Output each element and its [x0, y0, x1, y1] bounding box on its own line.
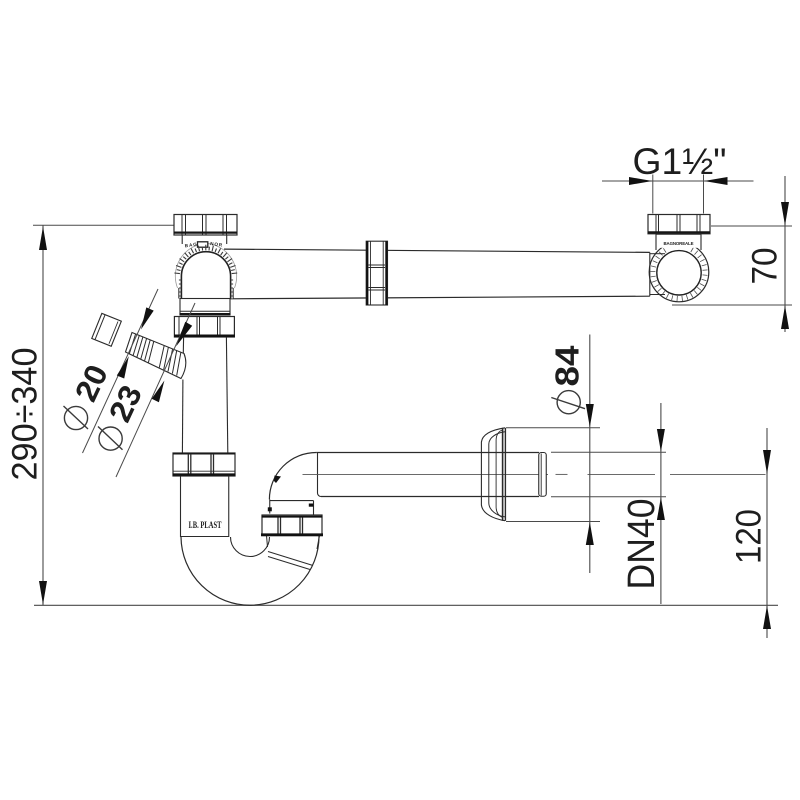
- node elbow socket mouth: [649, 252, 651, 296]
- wire dim ∅23 leader line: [116, 303, 195, 477]
- pipe tee dome tube arc: [181, 252, 230, 299]
- svg-text:BAGNOREALE: BAGNOREALE: [664, 241, 694, 246]
- wire trap body tube edges: [180, 476, 182, 537]
- wire vertical pipe right edge: [226, 337, 227, 453]
- elbow E1 knurl marks: [650, 248, 707, 302]
- node wall flange cone: [481, 428, 505, 521]
- pipe U-bend outer arc: [181, 536, 319, 606]
- node dim DN40 extension lines: [551, 451, 666, 453]
- wire dim 290÷340 dimension line: [42, 226, 44, 606]
- node wall flange face plate: [502, 428, 504, 521]
- svg-text:70: 70: [745, 248, 785, 285]
- wire dim ∅20 leader line: [83, 289, 159, 453]
- elbow E1 body ring: [649, 242, 709, 302]
- nut N6 mid-pipe joint: [366, 241, 387, 305]
- wire elbow joint vertical line: [318, 453, 322, 497]
- node elbow shoulder: [270, 500, 314, 502]
- svg-text:DN40: DN40: [621, 499, 663, 590]
- wire outlet pipe bottom edge: [321, 496, 539, 498]
- nut N5 right elbow top nut: [648, 215, 710, 234]
- pipe U-bend inner arc: [231, 537, 270, 557]
- wire dim 70 dimension line: [784, 176, 786, 332]
- elbow E1 inner ring: [657, 251, 701, 295]
- wire elbow left edge: [269, 499, 271, 513]
- pipe trap outlet elbow outer arc: [269, 453, 316, 500]
- node tee neck: [181, 235, 183, 245]
- node elbow base marks: [268, 507, 272, 511]
- nut N3 trap inlet nut: [173, 453, 236, 476]
- node label ∅20: [64, 406, 87, 429]
- wire outlet pipe top edge: [316, 452, 539, 454]
- node dim 290÷340 extension line top: [33, 224, 174, 226]
- wire dim DN40 dimension line: [660, 403, 662, 604]
- nut N4 trap outlet nut: [261, 515, 323, 536]
- svg-text:G1½": G1½": [633, 141, 727, 182]
- wire dim 120 dimension line: [766, 428, 768, 638]
- wire dim ∅84 dimension line: [589, 335, 591, 574]
- svg-text:120: 120: [729, 509, 769, 564]
- tee T1 dome knurl marks: [174, 245, 237, 296]
- wire top pipe lower edge: [229, 296, 650, 299]
- svg-text:84: 84: [548, 345, 585, 387]
- nut N2 tee lower nut: [174, 317, 235, 338]
- svg-text:290÷340: 290÷340: [5, 348, 45, 481]
- wire vertical pipe left edge upper: [182, 337, 184, 353]
- connector J1 barb cap: [92, 313, 122, 346]
- node dim G1½ extension lines: [652, 175, 654, 214]
- node tee boss: [198, 242, 208, 247]
- svg-text:I.B. PLAST: I.B. PLAST: [189, 520, 222, 530]
- tee T1 dome body: [175, 243, 236, 298]
- wire ground reference line: [34, 604, 778, 606]
- node dim ∅84 extension lines: [506, 427, 600, 429]
- connector J1 hose barb: [126, 333, 186, 379]
- nut N1 tee top nut: [174, 215, 237, 236]
- node dim 70 extension lines: [711, 225, 792, 227]
- node trap body step line: [181, 536, 229, 538]
- wire dim G1½ dimension line: [602, 180, 754, 182]
- node outlet pipe end bead: [539, 453, 547, 497]
- node label ∅84: [557, 391, 580, 414]
- node trap outlet socket seams: [268, 552, 313, 566]
- wire top pipe upper edge: [224, 249, 650, 252]
- node elbow socket spigot lines: [650, 253, 665, 255]
- connector J1 barb ribs: [129, 334, 181, 376]
- node elbow neck: [656, 234, 701, 248]
- wire vertical pipe left edge lower: [181, 380, 184, 454]
- node elbow mold mark: [274, 476, 281, 484]
- node tee collar: [180, 299, 231, 316]
- wire outlet pipe axis: [303, 473, 549, 475]
- node label ∅23: [99, 427, 122, 450]
